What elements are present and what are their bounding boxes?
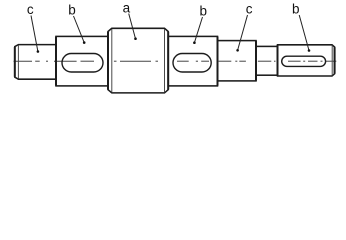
svg-text:b: b: [292, 1, 300, 16]
svg-text:b: b: [68, 2, 76, 17]
svg-text:b: b: [200, 4, 208, 19]
svg-text:c: c: [27, 2, 34, 17]
svg-text:a: a: [123, 1, 131, 16]
svg-text:c: c: [246, 2, 253, 17]
